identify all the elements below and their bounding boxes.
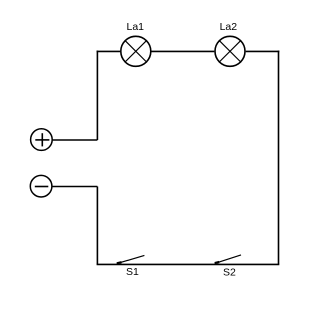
svg-text:S1: S1	[126, 266, 139, 278]
svg-text:S2: S2	[223, 266, 236, 278]
svg-text:La1: La1	[127, 21, 145, 33]
svg-text:La2: La2	[220, 21, 238, 33]
